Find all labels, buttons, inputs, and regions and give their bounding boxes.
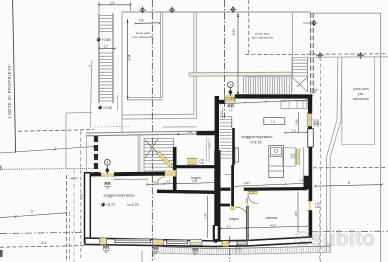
fence dashed right <box>313 166 388 169</box>
window left unit 1 <box>115 239 151 243</box>
dashed line y55 <box>245 53 388 56</box>
svg-text:0.90: 0.90 <box>293 153 297 159</box>
svg-text:2.4: 2.4 <box>188 130 193 134</box>
door left unit D3 <box>190 240 202 245</box>
svg-text:90: 90 <box>105 250 108 254</box>
entry marker 3 <box>228 82 234 96</box>
svg-text:2.8: 2.8 <box>193 179 198 183</box>
svg-text:2.1: 2.1 <box>219 111 223 115</box>
stair east wall <box>173 147 177 193</box>
marker south door B <box>152 246 159 255</box>
svg-text:RR: RR <box>104 181 111 186</box>
porch west wall dashed <box>94 136 98 173</box>
east wall lower <box>309 211 313 240</box>
svg-text:0.9: 0.9 <box>167 180 171 184</box>
far right vertical <box>380 13 382 262</box>
vdim stack mid <box>289 153 296 159</box>
stair rail ext <box>117 95 119 110</box>
benchmark 3 <box>229 6 236 13</box>
dim 5.91 <box>232 13 239 96</box>
window label big <box>312 119 320 127</box>
bagno-left south wall <box>157 191 216 192</box>
entry marker 4 <box>104 159 110 174</box>
east balcony ledge <box>308 129 314 147</box>
corridor door yellow <box>187 158 198 164</box>
svg-text:3.45: 3.45 <box>294 211 298 217</box>
dashed line top right vertical <box>248 0 250 55</box>
vdim 3.45 <box>294 192 298 232</box>
left unit south wall <box>85 238 218 247</box>
svg-text:4: 4 <box>106 161 108 165</box>
svg-text:90: 90 <box>194 252 197 256</box>
fence dotted left <box>0 167 94 170</box>
parking text center <box>252 32 274 40</box>
svg-text:1.50: 1.50 <box>314 205 320 209</box>
label 20 bottom <box>152 253 156 259</box>
east closet door <box>296 149 299 166</box>
text soggiorno right <box>242 134 274 139</box>
svg-text:pav.: pav. <box>358 92 364 96</box>
svg-text:4.25: 4.25 <box>127 54 131 60</box>
dim 2.4 corridor <box>177 130 206 135</box>
dashed vertical x320 <box>319 57 321 262</box>
label LIMITE DI PROPRIETA <box>7 64 12 119</box>
vdim 3.44 <box>203 196 207 238</box>
door text RR right <box>227 104 234 113</box>
svg-text:3.08: 3.08 <box>294 119 298 125</box>
svg-text:3.44: 3.44 <box>203 213 207 219</box>
dim line left interior <box>146 179 217 185</box>
south window bagno right <box>222 241 229 247</box>
text camera <box>266 216 278 220</box>
gray line y57 right <box>292 56 388 59</box>
svg-text:posto auto: posto auto <box>353 87 369 91</box>
dim 3.67 <box>231 181 285 188</box>
svg-text:camera: camera <box>266 216 278 220</box>
wall above dashed pair right <box>311 13 314 96</box>
svg-text:h=2.70: h=2.70 <box>128 203 139 207</box>
vdim 1.2 door <box>244 197 248 205</box>
west face above <box>90 60 92 128</box>
dashed y246 left <box>0 241 86 247</box>
door left unit D2 <box>153 239 164 245</box>
party wall upper <box>215 96 219 150</box>
window left unit 2 <box>167 240 188 244</box>
kitchen counter <box>269 146 284 178</box>
dashdot y233 left <box>0 232 86 233</box>
svg-text:h=2.70: h=2.70 <box>250 141 261 145</box>
vdim 1.95 <box>208 143 212 149</box>
svg-text:2.5: 2.5 <box>139 19 144 23</box>
svg-text:subito: subito <box>311 227 376 251</box>
canopy beam <box>189 72 292 76</box>
south window camera <box>237 241 247 245</box>
svg-text:90: 90 <box>106 186 109 190</box>
svg-text:RR: RR <box>227 104 234 109</box>
svg-text:1.50: 1.50 <box>238 247 242 253</box>
stair rail rect <box>235 148 239 162</box>
svg-text:1.9: 1.9 <box>110 1 115 5</box>
survey dim upper <box>0 145 95 153</box>
gray line y13 top right <box>311 12 381 14</box>
stair north gray <box>142 131 217 135</box>
party wall lower <box>214 150 218 243</box>
dim 1.5 <box>284 129 307 134</box>
dim 4.25 vertical <box>127 19 132 100</box>
svg-text:1.2: 1.2 <box>152 180 157 184</box>
dining table <box>264 118 285 125</box>
svg-text:5.91: 5.91 <box>232 29 236 35</box>
gray curb L left <box>66 112 92 169</box>
right lot line A <box>327 58 338 253</box>
svg-text:+0.60: +0.60 <box>102 38 111 42</box>
svg-text:LIMITE DI PROPRIETA': LIMITE DI PROPRIETA' <box>7 64 12 119</box>
svg-text:RR: RR <box>152 246 159 251</box>
text bagno right <box>229 217 239 221</box>
dashed y131 <box>18 130 94 132</box>
soggiorno-left door <box>157 170 176 184</box>
svg-text:2.20: 2.20 <box>316 121 320 127</box>
level marker +0.60 <box>97 38 111 42</box>
porch west edge thin <box>85 135 87 174</box>
counter top wall <box>281 101 307 109</box>
camera door gap <box>244 187 258 191</box>
survey dim lower <box>0 210 67 218</box>
dashdot y232 right <box>311 230 388 233</box>
text h270 right <box>250 141 261 145</box>
scan smudge 1 <box>0 166 2 171</box>
svg-text:1.5: 1.5 <box>292 129 296 133</box>
left unit west wall <box>85 173 91 243</box>
benchmark 4 <box>303 20 318 27</box>
bagno-camera north wall <box>221 187 308 191</box>
svg-text:pav. salvaverde: pav. salvaverde <box>132 35 154 39</box>
right unit north wall <box>216 96 312 101</box>
dim 5 right <box>314 181 383 187</box>
dim line camera <box>220 223 307 229</box>
bagno door <box>230 206 247 213</box>
internal stair left unit <box>144 139 174 172</box>
text soggiorno left <box>104 193 136 198</box>
marker south door D <box>234 247 241 253</box>
benchmark 6 <box>357 52 364 59</box>
stack numbers bagno <box>199 158 205 165</box>
marker south door A <box>103 245 110 254</box>
text h270 left <box>128 203 139 207</box>
parking text right <box>353 87 369 101</box>
left unit NE wall <box>197 131 219 135</box>
svg-text:bagno: bagno <box>229 217 239 221</box>
camera door <box>248 191 258 203</box>
internal stair right unit <box>220 117 234 211</box>
benchmark 5 <box>316 52 323 59</box>
scan smudge 2 <box>0 250 3 257</box>
svg-text:1.20: 1.20 <box>152 253 156 259</box>
canopy and parking outline <box>95 12 311 173</box>
svg-text:3.67: 3.67 <box>244 181 250 185</box>
gray vertical x74 <box>73 169 75 262</box>
svg-text:5: 5 <box>31 210 33 214</box>
left unit entry wall <box>87 174 165 180</box>
svg-text:4.07: 4.07 <box>270 223 276 227</box>
right lot line B <box>330 58 342 253</box>
external stair left unit <box>99 13 113 103</box>
parking text left <box>132 31 154 39</box>
svg-text:salvaverde: salvaverde <box>353 97 369 101</box>
right parking rect <box>342 58 375 145</box>
dashed verticals bottom right <box>319 210 321 262</box>
dim 1.2 landing <box>98 44 115 49</box>
corner hatch NE <box>312 88 318 94</box>
marker south door C <box>192 247 199 256</box>
bagno-left north wall <box>176 165 216 168</box>
dim line right top <box>220 95 307 105</box>
svg-text:2.3: 2.3 <box>227 224 232 228</box>
dim label 8 on boundary <box>87 65 91 67</box>
bagno-left east thin <box>207 138 209 162</box>
svg-text:RR: RR <box>192 247 199 252</box>
svg-text:soggiorno/pranzo: soggiorno/pranzo <box>104 193 136 198</box>
svg-text:4.3: 4.3 <box>42 241 47 245</box>
svg-text:RR: RR <box>103 245 110 250</box>
marker entry door left <box>104 181 111 190</box>
bagno partition top <box>247 205 249 207</box>
svg-text:5.44: 5.44 <box>79 193 83 199</box>
svg-text:1.4: 1.4 <box>271 120 276 124</box>
centre line A <box>151 0 153 262</box>
vdim 3.08 <box>294 112 298 132</box>
svg-text:1.2: 1.2 <box>104 44 109 48</box>
level +2.77 <box>101 203 115 207</box>
right unit east wall upper <box>308 95 312 114</box>
dim 1.9 top <box>98 1 131 12</box>
text bagno left <box>191 176 201 180</box>
vdim 5.44 west <box>79 193 83 199</box>
subito watermark <box>295 227 375 251</box>
centre line B <box>224 0 226 118</box>
svg-text:1.4: 1.4 <box>299 178 304 182</box>
porch north wall gray <box>86 132 142 136</box>
east wall mid black bit <box>308 127 312 130</box>
terrace edge hatch <box>153 246 331 255</box>
dashed vertical x80 <box>80 131 82 258</box>
svg-text:+2.92: +2.92 <box>103 106 112 110</box>
external stair right unit <box>244 58 308 95</box>
svg-text:pav. salvaverde: pav. salvaverde <box>252 36 274 40</box>
bagno partition <box>247 206 249 241</box>
dim 2.5 parking <box>135 19 161 25</box>
centre line bottom <box>229 236 231 262</box>
bottom gray vertical <box>141 250 143 262</box>
bagno top wall <box>221 204 231 207</box>
svg-text:1.95: 1.95 <box>208 143 212 149</box>
east inner line <box>303 147 305 176</box>
svg-text:1.1: 1.1 <box>231 96 235 100</box>
south door left unit <box>100 238 107 244</box>
dashed vertical x66 <box>67 175 70 262</box>
svg-text:0.90: 0.90 <box>199 161 205 165</box>
benchmark 2 <box>168 7 175 14</box>
right unit south wall <box>217 237 312 247</box>
east window small <box>308 201 313 211</box>
level marker +2.92 <box>98 106 112 110</box>
dim 1.4b <box>285 178 308 184</box>
entry door left unit <box>101 173 114 177</box>
window label east small <box>314 202 320 209</box>
svg-text:5: 5 <box>348 181 350 185</box>
east wall mid <box>309 147 313 201</box>
window label east big <box>313 121 321 127</box>
benchmark 1 <box>139 7 146 14</box>
cabinet east <box>283 148 295 166</box>
svg-text:+2.77: +2.77 <box>106 203 115 207</box>
entry door right unit <box>225 95 235 103</box>
svg-text:5.41: 5.41 <box>252 96 258 100</box>
east window big <box>307 114 312 127</box>
svg-text:soggiorno/pranzo: soggiorno/pranzo <box>242 134 274 139</box>
east pier <box>304 176 311 189</box>
vdim 2.1 <box>219 108 223 118</box>
property boundary line <box>13 0 16 153</box>
tick cross x74 <box>71 177 79 180</box>
svg-text:3: 3 <box>229 83 231 87</box>
